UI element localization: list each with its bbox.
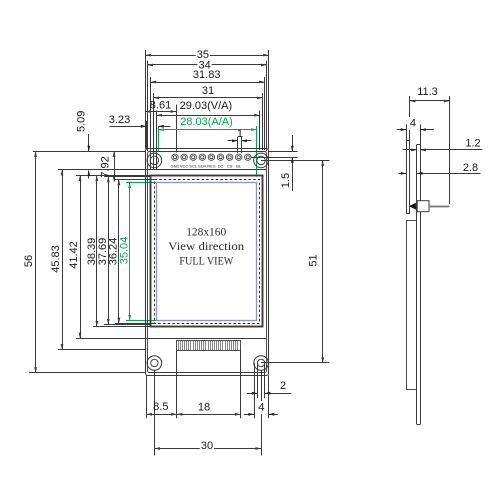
svg-text:View direction: View direction: [168, 239, 244, 253]
svg-text:FULL VIEW: FULL VIEW: [179, 253, 234, 267]
svg-text:5.09: 5.09: [76, 111, 88, 132]
svg-text:45.83: 45.83: [50, 245, 62, 273]
svg-text:VCC: VCC: [180, 163, 189, 168]
svg-text:28.03(A/A): 28.03(A/A): [180, 116, 233, 128]
svg-text:18: 18: [198, 402, 210, 414]
svg-text:7.92: 7.92: [99, 156, 111, 177]
svg-text:8.5: 8.5: [153, 401, 168, 413]
svg-text:8.61: 8.61: [150, 99, 171, 111]
svg-text:GND: GND: [171, 163, 180, 168]
svg-text:31: 31: [202, 85, 214, 97]
svg-text:1: 1: [237, 128, 243, 140]
svg-text:2.8: 2.8: [463, 162, 478, 174]
svg-text:30: 30: [201, 440, 213, 452]
svg-text:128x160: 128x160: [186, 225, 226, 239]
svg-text:RES: RES: [207, 163, 216, 168]
svg-text:31.83: 31.83: [193, 69, 221, 81]
svg-text:2: 2: [280, 380, 286, 392]
svg-text:11.3: 11.3: [417, 86, 438, 98]
svg-text:29.03(V/A): 29.03(V/A): [180, 100, 233, 112]
svg-text:4: 4: [410, 118, 416, 130]
svg-text:35.04: 35.04: [118, 237, 130, 265]
svg-text:1.2: 1.2: [465, 138, 480, 150]
svg-text:3.23: 3.23: [109, 114, 130, 126]
svg-text:56: 56: [23, 255, 35, 267]
svg-text:1.5: 1.5: [280, 173, 292, 188]
svg-text:41.42: 41.42: [68, 241, 80, 269]
svg-text:51: 51: [308, 254, 320, 266]
svg-text:SCL: SCL: [189, 163, 198, 168]
svg-text:4: 4: [258, 402, 264, 414]
svg-text:SDA: SDA: [198, 163, 207, 168]
svg-text:DC: DC: [218, 163, 224, 168]
svg-text:BL: BL: [236, 163, 242, 168]
svg-text:CS: CS: [227, 163, 233, 168]
